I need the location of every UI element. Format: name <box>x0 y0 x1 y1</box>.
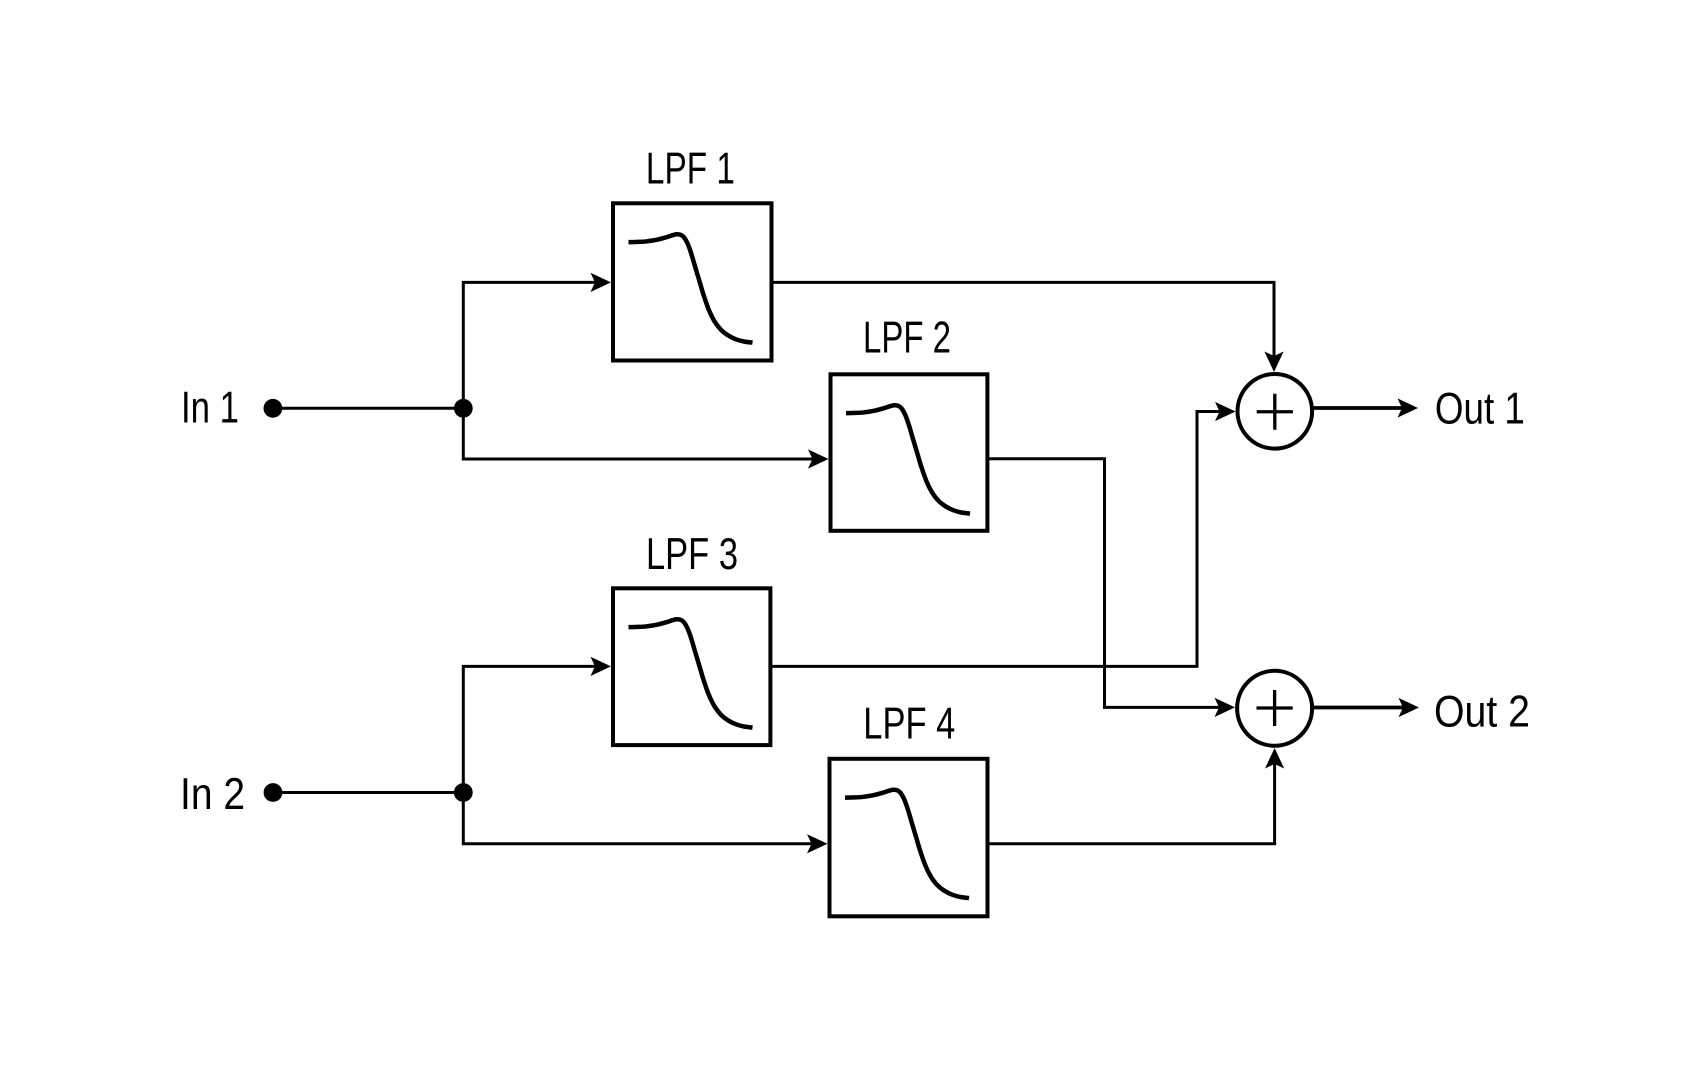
arrowhead Out 1 <box>1398 398 1419 417</box>
junction J2 (In 2 branch dot) <box>454 783 473 802</box>
wire LPF 2 output to summer 2 left <box>987 459 1220 708</box>
svg-text:In 2: In 2 <box>180 770 245 819</box>
arrowhead into LPF 4 <box>807 834 828 853</box>
svg-text:Out 1: Out 1 <box>1435 385 1525 434</box>
node In 2 (input terminal dot) <box>264 783 283 802</box>
svg-text:LPF 2: LPF 2 <box>863 313 951 362</box>
wire J1 down-branch to LPF 2 input <box>463 408 815 459</box>
wire LPF 1 output to summer 1 top <box>772 282 1275 358</box>
filter block LPF 1 <box>613 144 772 360</box>
arrowhead into summer 2 left <box>1215 698 1236 717</box>
summer U1 (summing junction for Out 1) <box>1238 374 1313 449</box>
wire J2 up-branch to LPF 3 input <box>463 666 598 792</box>
wire summer 2 output <box>1313 706 1404 710</box>
svg-text:Out 2: Out 2 <box>1434 687 1530 736</box>
wire LPF 4 output to summer 2 bottom <box>988 762 1275 844</box>
arrowhead into LPF 2 <box>808 449 829 468</box>
wire In 1 to junction <box>273 407 463 410</box>
arrowhead into LPF 1 <box>591 273 612 292</box>
svg-text:LPF 4: LPF 4 <box>863 700 955 749</box>
summer U2 (summing junction for Out 2) <box>1237 671 1312 746</box>
arrowhead into LPF 3 <box>591 657 612 676</box>
arrowhead Out 2 <box>1399 698 1420 717</box>
arrowhead into summer 2 bottom <box>1265 748 1284 769</box>
filter block LPF 3 <box>613 530 770 745</box>
wire summer 1 output <box>1312 406 1403 410</box>
arrowhead into summer 1 top <box>1264 352 1283 373</box>
svg-text:LPF 3: LPF 3 <box>646 530 738 579</box>
wire LPF 3 output to summer 1 left <box>770 412 1221 667</box>
svg-text:LPF 1: LPF 1 <box>646 144 735 193</box>
node In 1 (input terminal dot) <box>264 399 283 418</box>
wire J1 up-branch to LPF 1 input <box>463 282 598 408</box>
wire In 2 to junction <box>273 791 463 794</box>
wire J2 down-branch to LPF 4 input <box>463 793 814 844</box>
svg-text:In 1: In 1 <box>181 384 239 433</box>
arrowhead into summer 1 left <box>1215 402 1236 421</box>
junction J1 (In 1 branch dot) <box>454 399 473 418</box>
filter block LPF 2 <box>831 313 988 531</box>
filter block LPF 4 <box>830 700 988 917</box>
